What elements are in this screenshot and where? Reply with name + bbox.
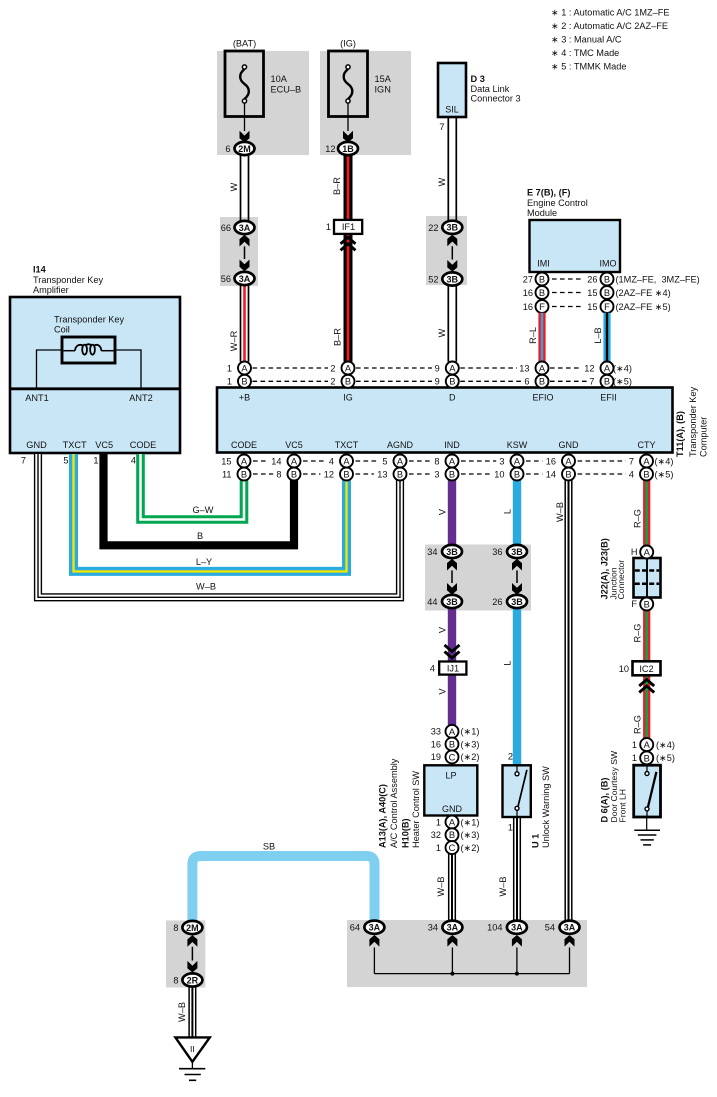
- svg-text:∗ 1 : Automatic A/C 1MZ–FE: ∗ 1 : Automatic A/C 1MZ–FE: [551, 8, 670, 18]
- svg-text:B: B: [397, 469, 403, 479]
- svg-text:3A: 3A: [564, 923, 576, 933]
- svg-text:Amplifier: Amplifier: [33, 285, 69, 295]
- svg-text:15A: 15A: [375, 74, 392, 84]
- svg-text:A: A: [644, 547, 651, 557]
- svg-text:1: 1: [508, 823, 513, 833]
- svg-text:44: 44: [427, 597, 437, 607]
- svg-text:(2AZ–FE ∗4): (2AZ–FE ∗4): [616, 288, 671, 298]
- svg-text:16: 16: [523, 302, 533, 312]
- svg-text:32: 32: [431, 830, 441, 840]
- svg-text:KSW: KSW: [507, 440, 528, 450]
- svg-text:2: 2: [330, 363, 335, 373]
- svg-text:Unlock Warning SW: Unlock Warning SW: [541, 766, 551, 848]
- svg-text:A: A: [449, 363, 456, 373]
- svg-text:IG: IG: [343, 393, 353, 403]
- svg-text:(∗4): (∗4): [613, 363, 632, 373]
- svg-text:W: W: [437, 177, 447, 186]
- svg-text:8: 8: [173, 923, 178, 933]
- svg-text:1: 1: [632, 753, 637, 763]
- svg-text:9: 9: [435, 363, 440, 373]
- svg-text:15: 15: [221, 456, 231, 466]
- svg-text:B: B: [197, 531, 203, 541]
- svg-text:VC5: VC5: [95, 440, 113, 450]
- svg-text:VC5: VC5: [285, 440, 303, 450]
- svg-text:15: 15: [587, 302, 597, 312]
- svg-text:12: 12: [584, 363, 594, 373]
- svg-text:GND: GND: [559, 440, 580, 450]
- svg-text:A: A: [345, 363, 352, 373]
- svg-text:A: A: [449, 727, 456, 737]
- svg-text:14: 14: [271, 456, 281, 466]
- svg-text:A/C Control Assembly: A/C Control Assembly: [389, 758, 399, 848]
- svg-text:A: A: [291, 456, 298, 466]
- svg-text:B: B: [241, 469, 247, 479]
- svg-text:36: 36: [492, 547, 502, 557]
- svg-text:9: 9: [435, 377, 440, 387]
- svg-text:AGND: AGND: [387, 440, 414, 450]
- svg-text:W–B: W–B: [498, 877, 508, 897]
- svg-text:∗ 3 : Manual A/C: ∗ 3 : Manual A/C: [551, 35, 622, 45]
- svg-text:3B: 3B: [511, 597, 523, 607]
- svg-text:A: A: [565, 456, 572, 466]
- svg-text:10: 10: [619, 664, 629, 674]
- svg-text:IJ1: IJ1: [447, 663, 459, 673]
- svg-text:+B: +B: [239, 393, 250, 403]
- svg-text:IND: IND: [444, 440, 460, 450]
- svg-text:14: 14: [546, 469, 556, 479]
- svg-text:B: B: [241, 377, 247, 387]
- svg-text:5: 5: [382, 456, 387, 466]
- svg-text:GND: GND: [442, 804, 463, 814]
- svg-text:4: 4: [430, 663, 435, 673]
- svg-text:IC2: IC2: [639, 664, 653, 674]
- svg-text:1: 1: [227, 363, 232, 373]
- svg-text:1: 1: [93, 456, 98, 466]
- svg-text:Engine Control: Engine Control: [527, 198, 588, 208]
- svg-text:C: C: [449, 752, 456, 762]
- svg-text:1: 1: [436, 843, 441, 853]
- svg-text:SB: SB: [263, 842, 275, 852]
- svg-text:5: 5: [63, 456, 68, 466]
- svg-text:3B: 3B: [446, 597, 458, 607]
- svg-text:II: II: [190, 1044, 195, 1054]
- svg-text:T11(A), (B): T11(A), (B): [675, 411, 685, 457]
- svg-text:19: 19: [431, 752, 441, 762]
- svg-text:27: 27: [523, 274, 533, 284]
- svg-text:Computer: Computer: [699, 417, 709, 457]
- svg-text:D 3: D 3: [471, 74, 485, 84]
- svg-text:3A: 3A: [447, 923, 459, 933]
- svg-text:H10(B): H10(B): [401, 818, 411, 848]
- svg-text:F: F: [631, 599, 637, 609]
- svg-text:8: 8: [276, 469, 281, 479]
- svg-text:3A: 3A: [239, 223, 251, 233]
- svg-text:3B: 3B: [511, 547, 523, 557]
- svg-text:F: F: [539, 302, 545, 312]
- svg-text:3B: 3B: [446, 547, 458, 557]
- svg-text:16: 16: [431, 739, 441, 749]
- svg-text:IGN: IGN: [375, 85, 391, 95]
- svg-text:LP: LP: [445, 771, 456, 781]
- svg-text:Coil: Coil: [54, 325, 70, 335]
- svg-text:26: 26: [492, 597, 502, 607]
- svg-text:(∗3): (∗3): [461, 739, 480, 749]
- svg-text:B: B: [539, 274, 545, 284]
- svg-text:D: D: [449, 393, 456, 403]
- svg-text:IMI: IMI: [537, 259, 550, 269]
- svg-text:CODE: CODE: [231, 440, 257, 450]
- svg-text:F: F: [604, 302, 610, 312]
- svg-text:10: 10: [494, 469, 504, 479]
- svg-text:A: A: [397, 456, 404, 466]
- svg-text:∗ 5 : TMMK Made: ∗ 5 : TMMK Made: [551, 62, 626, 72]
- svg-text:3B: 3B: [447, 223, 459, 233]
- svg-text:7: 7: [589, 377, 594, 387]
- svg-text:(∗4): (∗4): [655, 456, 674, 466]
- svg-text:Module: Module: [527, 208, 557, 218]
- svg-text:Transponder Key: Transponder Key: [54, 315, 125, 325]
- svg-text:7: 7: [629, 456, 634, 466]
- svg-text:15: 15: [587, 288, 597, 298]
- svg-text:B–R: B–R: [333, 328, 343, 346]
- svg-text:ECU–B: ECU–B: [271, 85, 302, 95]
- svg-text:EFIO: EFIO: [532, 393, 553, 403]
- svg-text:2: 2: [508, 752, 513, 762]
- svg-text:B: B: [345, 377, 351, 387]
- svg-text:A: A: [449, 817, 456, 827]
- svg-text:B: B: [604, 288, 610, 298]
- svg-text:12: 12: [325, 144, 335, 154]
- svg-text:R–L: R–L: [528, 327, 538, 344]
- svg-text:1: 1: [632, 740, 637, 750]
- svg-text:CODE: CODE: [130, 440, 157, 450]
- svg-text:L–B: L–B: [593, 327, 603, 343]
- svg-text:(∗5): (∗5): [613, 377, 632, 387]
- svg-text:1: 1: [227, 377, 232, 387]
- svg-text:1: 1: [436, 817, 441, 827]
- svg-text:Transponder Key: Transponder Key: [688, 386, 698, 457]
- svg-text:A: A: [539, 363, 546, 373]
- svg-text:22: 22: [428, 223, 438, 233]
- svg-text:Front LH: Front LH: [618, 789, 628, 822]
- svg-text:B: B: [644, 599, 650, 609]
- svg-text:GND: GND: [26, 440, 47, 450]
- svg-text:4: 4: [629, 469, 634, 479]
- svg-text:8: 8: [173, 976, 178, 986]
- svg-text:B: B: [644, 753, 650, 763]
- svg-text:SIL: SIL: [445, 105, 459, 115]
- svg-text:Connector: Connector: [616, 560, 626, 600]
- svg-text:W: W: [437, 328, 447, 337]
- svg-text:26: 26: [587, 274, 597, 284]
- svg-text:B: B: [643, 469, 649, 479]
- svg-text:W–B: W–B: [555, 502, 565, 522]
- svg-text:W: W: [229, 182, 239, 191]
- svg-text:(IG): (IG): [340, 39, 356, 49]
- svg-text:A: A: [604, 363, 611, 373]
- svg-text:(BAT): (BAT): [233, 39, 256, 49]
- svg-text:(∗1): (∗1): [461, 727, 480, 737]
- svg-text:B: B: [604, 377, 610, 387]
- svg-text:∗ 2 : Automatic A/C 2AZ–FE: ∗ 2 : Automatic A/C 2AZ–FE: [551, 21, 668, 31]
- svg-text:A: A: [644, 740, 651, 750]
- svg-text:104: 104: [487, 923, 502, 933]
- svg-text:C: C: [449, 843, 456, 853]
- svg-text:A: A: [241, 456, 248, 466]
- svg-text:Data Link: Data Link: [471, 84, 510, 94]
- svg-text:3: 3: [499, 456, 504, 466]
- svg-text:3: 3: [434, 469, 439, 479]
- svg-text:ANT1: ANT1: [25, 393, 49, 403]
- svg-text:B: B: [604, 274, 610, 284]
- svg-text:B: B: [514, 469, 520, 479]
- svg-text:33: 33: [431, 727, 441, 737]
- svg-text:B: B: [539, 377, 545, 387]
- svg-text:1: 1: [326, 222, 331, 232]
- svg-text:34: 34: [428, 923, 438, 933]
- svg-text:2M: 2M: [186, 923, 199, 933]
- svg-text:E 7(B), (F): E 7(B), (F): [527, 188, 570, 198]
- svg-text:16: 16: [546, 456, 556, 466]
- svg-text:V: V: [438, 508, 448, 515]
- svg-text:L–Y: L–Y: [196, 557, 212, 567]
- svg-text:2R: 2R: [187, 975, 199, 985]
- svg-text:B: B: [291, 469, 297, 479]
- svg-text:L: L: [503, 660, 513, 665]
- svg-text:A: A: [241, 363, 248, 373]
- svg-text:TXCT: TXCT: [63, 440, 87, 450]
- svg-text:4: 4: [329, 456, 334, 466]
- svg-text:(∗1): (∗1): [461, 817, 480, 827]
- svg-text:B: B: [449, 469, 455, 479]
- svg-text:64: 64: [350, 923, 360, 933]
- svg-text:4: 4: [131, 456, 136, 466]
- svg-text:Connector 3: Connector 3: [471, 94, 521, 104]
- svg-text:13: 13: [519, 363, 529, 373]
- svg-text:(∗5): (∗5): [656, 753, 675, 763]
- svg-text:3B: 3B: [447, 274, 459, 284]
- svg-text:W–B: W–B: [177, 1002, 187, 1022]
- svg-text:11: 11: [222, 469, 232, 479]
- svg-text:B: B: [449, 740, 455, 750]
- svg-text:B: B: [449, 830, 455, 840]
- svg-text:V: V: [438, 626, 448, 633]
- svg-text:A: A: [643, 456, 650, 466]
- svg-text:B: B: [343, 469, 349, 479]
- svg-text:3A: 3A: [511, 923, 523, 933]
- svg-text:Heater Control SW: Heater Control SW: [411, 771, 421, 848]
- svg-text:IMO: IMO: [600, 259, 617, 269]
- svg-text:56: 56: [221, 274, 231, 284]
- svg-text:7: 7: [21, 456, 26, 466]
- svg-text:6: 6: [524, 377, 529, 387]
- svg-text:(2AZ–FE ∗5): (2AZ–FE ∗5): [616, 302, 671, 312]
- svg-text:B: B: [539, 288, 545, 298]
- svg-text:(∗2): (∗2): [461, 843, 480, 853]
- svg-text:W–B: W–B: [196, 582, 216, 592]
- svg-text:A: A: [343, 456, 350, 466]
- svg-text:(1MZ–FE, 3MZ–FE): (1MZ–FE, 3MZ–FE): [616, 274, 700, 284]
- svg-text:ANT2: ANT2: [129, 393, 153, 403]
- svg-text:G–W: G–W: [193, 505, 214, 515]
- svg-text:D 6(A), (B): D 6(A), (B): [600, 778, 610, 823]
- svg-text:H: H: [631, 547, 638, 557]
- svg-text:TXCT: TXCT: [335, 440, 359, 450]
- svg-text:R–G: R–G: [633, 715, 643, 734]
- svg-text:W–B: W–B: [436, 877, 446, 897]
- svg-text:3A: 3A: [239, 274, 251, 284]
- svg-text:Transponder Key: Transponder Key: [33, 275, 104, 285]
- svg-text:(∗5): (∗5): [655, 469, 674, 479]
- svg-text:7: 7: [439, 122, 444, 132]
- svg-text:IF1: IF1: [342, 222, 355, 232]
- svg-text:(∗2): (∗2): [461, 752, 480, 762]
- svg-text:U 1: U 1: [531, 834, 541, 848]
- svg-text:R–G: R–G: [633, 624, 643, 643]
- svg-text:EFII: EFII: [600, 393, 617, 403]
- svg-text:(∗4): (∗4): [656, 740, 675, 750]
- svg-text:V: V: [438, 688, 448, 695]
- svg-text:A13(A), A40(C): A13(A), A40(C): [378, 784, 388, 848]
- svg-text:3A: 3A: [369, 923, 381, 933]
- svg-text:16: 16: [523, 288, 533, 298]
- svg-text:A: A: [514, 456, 521, 466]
- svg-text:1B: 1B: [342, 144, 354, 154]
- svg-text:8: 8: [434, 456, 439, 466]
- svg-text:B: B: [565, 469, 571, 479]
- svg-text:(∗3): (∗3): [461, 830, 480, 840]
- svg-text:10A: 10A: [271, 74, 288, 84]
- svg-text:R–G: R–G: [633, 509, 643, 528]
- svg-text:L: L: [503, 509, 513, 514]
- svg-text:2M: 2M: [238, 144, 251, 154]
- svg-text:W–R: W–R: [229, 330, 239, 351]
- svg-text:I14: I14: [33, 265, 47, 275]
- svg-text:B–R: B–R: [332, 177, 342, 195]
- svg-text:∗ 4 : TMC Made: ∗ 4 : TMC Made: [551, 48, 619, 58]
- svg-text:12: 12: [324, 469, 334, 479]
- svg-text:2: 2: [330, 377, 335, 387]
- svg-text:CTY: CTY: [638, 440, 656, 450]
- svg-text:A: A: [449, 456, 456, 466]
- svg-text:B: B: [449, 377, 455, 387]
- svg-text:34: 34: [427, 547, 437, 557]
- svg-text:52: 52: [428, 275, 438, 285]
- svg-text:13: 13: [377, 469, 387, 479]
- svg-text:54: 54: [545, 923, 555, 933]
- svg-text:66: 66: [221, 223, 231, 233]
- svg-text:6: 6: [225, 144, 230, 154]
